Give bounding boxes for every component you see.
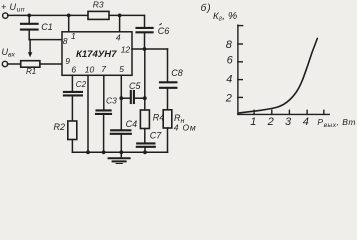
wire bottom rail — [72, 151, 167, 153]
capacitor C8 — [160, 82, 176, 88]
wire to R1 — [8, 63, 21, 65]
svg-text:4: 4 — [116, 32, 121, 42]
capacitor C1 — [21, 15, 38, 39]
node pin10 rail — [86, 150, 90, 154]
y tick 6 — [238, 61, 242, 63]
node C7 rail — [143, 150, 147, 154]
node pin1 tap — [67, 14, 71, 18]
node ground rail — [119, 150, 123, 154]
label +Uип — [1, 2, 25, 14]
capacitor C7 — [137, 143, 155, 146]
svg-text:C2: C2 — [76, 80, 87, 89]
svg-text:R2: R2 — [54, 122, 66, 132]
svg-text:C5: C5 — [129, 81, 141, 91]
wire pin7 stub — [103, 75, 105, 110]
svg-text:R3: R3 — [93, 0, 104, 10]
wire Rн to rail — [167, 128, 169, 152]
svg-text:3: 3 — [285, 116, 292, 128]
svg-text:4 Ом: 4 Ом — [174, 123, 197, 133]
node pin4 tap — [118, 14, 122, 18]
svg-text:1: 1 — [250, 116, 256, 128]
x tick 2 — [271, 110, 273, 114]
svg-text:R1: R1 — [26, 67, 36, 76]
wire pin5 down — [120, 98, 122, 130]
svg-text:4: 4 — [303, 116, 309, 128]
wire pin4 vertical — [119, 15, 121, 31]
resistor R4 — [140, 110, 149, 129]
curve Кг(P) — [239, 39, 317, 113]
wire C2 to R2 — [71, 95, 73, 121]
svg-text:б): б) — [201, 2, 212, 14]
svg-text:К174УН7: К174УН7 — [76, 48, 117, 59]
capacitor C2 — [64, 92, 82, 96]
wire C5 horizontal left — [121, 97, 131, 99]
svg-text:C1: C1 — [41, 22, 53, 32]
node B pin5/C5 — [119, 96, 123, 100]
wire R2 to rail — [71, 140, 73, 153]
resistor R2 — [68, 121, 77, 140]
wire C7 to rail — [144, 147, 146, 153]
svg-text:Кг, %: Кг, % — [213, 10, 237, 23]
paper background — [0, 0, 357, 164]
wire C8 corner down — [167, 49, 169, 82]
x tick 4 — [306, 110, 308, 114]
wire C3 to rail — [103, 114, 105, 152]
y tick 8 — [238, 43, 242, 45]
node B — [143, 96, 147, 100]
capacitor C3 — [96, 110, 111, 114]
wire C4 to rail — [120, 134, 122, 153]
y tick 4 — [238, 79, 242, 81]
graph y-axis — [237, 25, 239, 114]
resistor R1 — [21, 61, 40, 67]
op-amp U1 К174УН7 box — [62, 32, 132, 76]
svg-text:2: 2 — [267, 116, 274, 128]
svg-text:9: 9 — [65, 56, 70, 66]
wire pin6 stub — [71, 75, 73, 91]
y-axis top tick — [238, 25, 243, 27]
resistor Rн — [163, 110, 172, 128]
y tick 2 — [238, 96, 242, 98]
svg-text:C7: C7 — [150, 131, 162, 141]
svg-text:4: 4 — [226, 73, 232, 85]
svg-text:12: 12 — [121, 45, 131, 55]
wire pin5 stub — [120, 75, 122, 98]
terminal Uвх — [2, 61, 7, 66]
svg-text:2: 2 — [225, 93, 232, 105]
potentiometer wiper arrow — [28, 40, 32, 58]
wire pin12 horizontal — [132, 48, 168, 50]
svg-text:5: 5 — [119, 64, 124, 74]
svg-text:R4: R4 — [153, 112, 165, 122]
terminal +Uип — [3, 13, 8, 18]
resistor R3 — [88, 11, 109, 19]
wire R4 to C7 — [144, 129, 146, 144]
svg-text:C3: C3 — [106, 95, 117, 105]
node pin7 rail — [102, 150, 106, 154]
x tick 3 — [288, 110, 290, 114]
svg-text:10: 10 — [85, 64, 95, 74]
label C6 accent — [159, 23, 161, 25]
svg-text:7: 7 — [101, 64, 106, 74]
svg-text:8: 8 — [63, 36, 68, 46]
wire pin1 vertical — [68, 15, 70, 31]
svg-text:6: 6 — [71, 65, 76, 75]
svg-text:C4: C4 — [126, 119, 138, 129]
capacitor C4 — [111, 130, 131, 134]
wire C5 to node B — [134, 97, 145, 99]
capacitor C5 — [131, 91, 134, 103]
svg-text:C8: C8 — [171, 68, 183, 78]
ground — [109, 152, 130, 164]
x tick 5 — [323, 110, 325, 114]
node A — [143, 47, 147, 51]
wire rail corner to C6 — [144, 15, 146, 27]
capacitor C6 — [137, 28, 153, 32]
wire R1 to pin9 — [40, 63, 62, 65]
svg-text:+: + — [1, 2, 6, 12]
svg-text:1: 1 — [71, 31, 76, 41]
wire node A to node B — [144, 49, 146, 98]
graph x-axis — [238, 113, 329, 115]
node C1 tap — [27, 14, 31, 18]
wire top rail — [8, 14, 145, 16]
x tick 1 — [253, 110, 255, 114]
wire C8 to Rн — [167, 88, 169, 110]
svg-text:6: 6 — [227, 55, 234, 67]
svg-text:8: 8 — [226, 39, 233, 51]
svg-text:C6: C6 — [158, 26, 170, 36]
wire pin10 vertical — [87, 75, 89, 152]
wire pin8 horizontal — [29, 39, 62, 41]
wire node B to R4 — [144, 98, 146, 110]
wire C6 to node A — [144, 32, 146, 49]
